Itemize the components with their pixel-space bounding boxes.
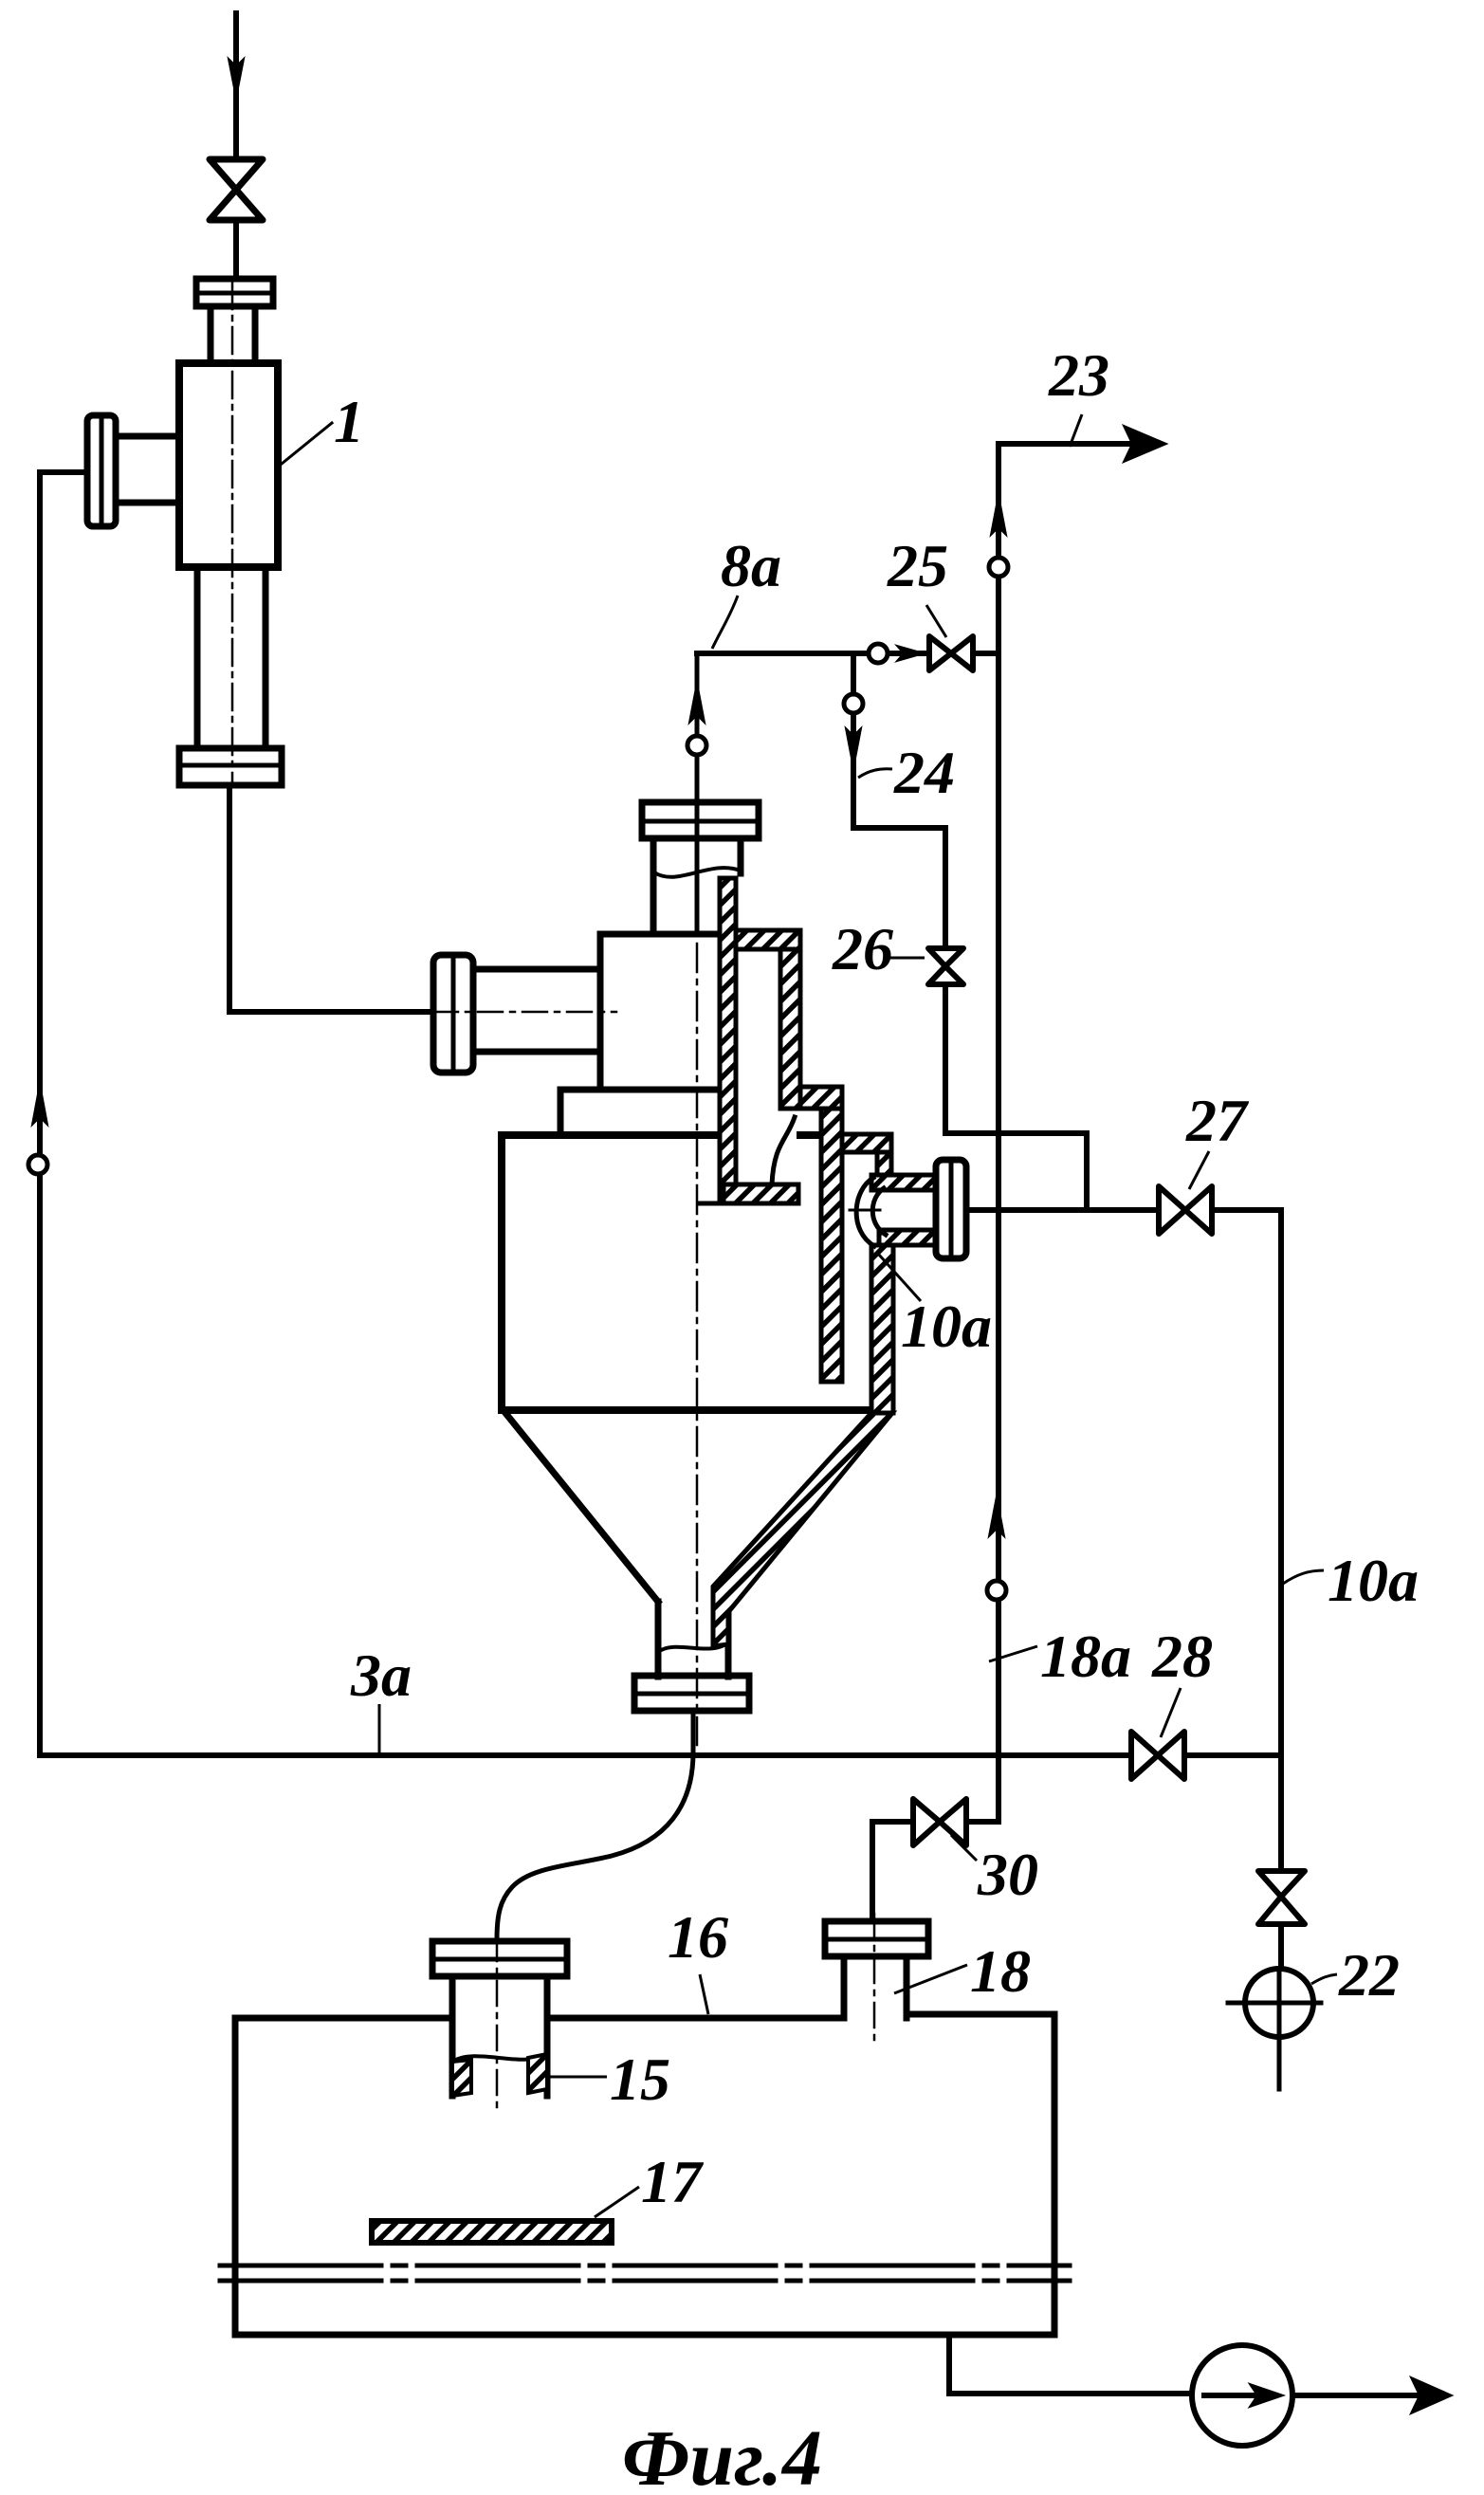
sampling line 8a inside nozzle bbox=[695, 653, 700, 934]
leader for label 8a bbox=[712, 596, 738, 649]
cup cone and neck band (hatched) bbox=[713, 1413, 892, 1646]
valve 25 bbox=[929, 636, 973, 670]
mixer top nozzle flange bbox=[642, 802, 759, 838]
inner tube bottom edge line bbox=[699, 1202, 724, 1206]
wire: line 23 horizontal with corner bbox=[998, 444, 1159, 653]
break curve in cup wall bbox=[772, 1117, 795, 1184]
pump outlet arrow head bbox=[1411, 2377, 1452, 2413]
svg-text:22: 22 bbox=[1338, 1941, 1400, 2009]
instrument circle on branch 24 bbox=[844, 694, 863, 713]
instrument circle on line 23 riser bbox=[989, 558, 1008, 577]
nozzle 15 centerline bbox=[496, 1936, 499, 2111]
svg-text:27: 27 bbox=[1185, 1087, 1250, 1154]
instrument circle on riser 18a bbox=[987, 1581, 1006, 1600]
inner tube left wall (hatched) bbox=[720, 878, 736, 1203]
leader for label 16 bbox=[700, 1974, 708, 2014]
svg-text:23: 23 bbox=[1048, 341, 1109, 409]
leader for label 18 bbox=[894, 1965, 967, 1993]
tank nozzle 18 flange bbox=[825, 1921, 928, 1956]
leader for label 25 bbox=[926, 605, 946, 637]
valve 26 bbox=[928, 948, 963, 984]
mixer inlet pipe centerline bbox=[433, 1011, 616, 1014]
tank nozzle 15 flange bbox=[432, 1941, 567, 1976]
pump outlet wire bbox=[1292, 2393, 1422, 2398]
inner cup right wall (hatched) bbox=[780, 949, 800, 1109]
outlet nozzle bottom wall (hatched) bbox=[879, 1230, 937, 1245]
valve 30 bbox=[913, 1799, 966, 1845]
wire: valve 30 to tank nozzle 18 bbox=[872, 1822, 913, 1921]
valve 27 bbox=[1159, 1186, 1212, 1234]
inner cup top rim (hatched) bbox=[736, 930, 800, 949]
svg-text:3a: 3a bbox=[350, 1642, 412, 1709]
instrument circle on 8a wire bbox=[869, 644, 888, 663]
svg-text:17: 17 bbox=[641, 2148, 705, 2215]
svg-text:24: 24 bbox=[893, 739, 955, 806]
flow arrow down on branch 24 bbox=[846, 728, 861, 768]
svg-text:18: 18 bbox=[970, 1937, 1031, 2005]
leader for label 10a at nozzle bbox=[878, 1254, 921, 1301]
flow arrow up on line 23 riser bbox=[991, 495, 1006, 535]
leader for label 17 bbox=[595, 2187, 639, 2217]
nozzle 18 centerline bbox=[873, 1914, 876, 2041]
leader for label 30 bbox=[951, 1835, 977, 1861]
mixer vertical centerline bbox=[696, 944, 699, 1745]
nozzle 15 break wave bbox=[452, 2054, 547, 2062]
mixer top box (left wall and top edge) bbox=[600, 934, 720, 1090]
valve (feed inlet, unnumbered) bbox=[210, 159, 263, 220]
leader for label 3a bbox=[378, 1704, 381, 1752]
plate 17 (hatched) bbox=[372, 2221, 612, 2243]
svg-text:10a: 10a bbox=[1328, 1547, 1419, 1614]
flow arrow up on line 8a bbox=[689, 683, 705, 723]
leader for label 15 bbox=[550, 2076, 607, 2079]
mixer top nozzle walls bbox=[653, 838, 741, 934]
svg-text:8a: 8a bbox=[721, 532, 781, 599]
wire: line 3a horizontal bbox=[40, 1752, 1281, 1758]
bottom flange of vessel 1 tube bbox=[179, 748, 282, 785]
svg-text:25: 25 bbox=[887, 532, 948, 599]
rotameter 22 circle bbox=[1245, 1969, 1313, 2037]
outlet elbow top strip (hatched) bbox=[842, 1134, 891, 1152]
outlet elbow bend arcs bbox=[856, 1178, 886, 1246]
leader for label 27 bbox=[1189, 1151, 1209, 1189]
svg-text:30: 30 bbox=[977, 1841, 1038, 1908]
leader line to label 1 bbox=[282, 423, 332, 464]
wire: line 10a from outlet nozzle to right riser bbox=[966, 1210, 1281, 1871]
tank nozzle 18 walls bbox=[844, 1956, 907, 2018]
flow arrow right on 8a wire bbox=[897, 646, 924, 661]
wire: feed inlet line into valve bbox=[233, 13, 239, 159]
outlet nozzle flange pair bbox=[936, 1160, 966, 1258]
wire: valve to rotameter 22 bbox=[1278, 1924, 1284, 1970]
break wave line in bottom neck bbox=[658, 1642, 728, 1652]
wire: vessel 1 outlet to mixer inlet flange bbox=[229, 785, 433, 1012]
flow arrow up on 3a riser bbox=[32, 1084, 47, 1125]
wire 3a riser: flange to bottom left corner bbox=[40, 472, 87, 1755]
left nozzle pipe of vessel 1 bbox=[119, 436, 179, 503]
outlet pipe from tank bottom to pump bbox=[949, 2335, 1192, 2394]
mixer main body bbox=[502, 1135, 870, 1410]
instrument circle on line 8a bbox=[687, 736, 706, 755]
svg-text:Фиг.4: Фиг.4 bbox=[622, 2414, 822, 2495]
nozzle 15 wall corners (hatched) bbox=[452, 2060, 471, 2096]
outer cup wall (hatched) bbox=[821, 1109, 842, 1382]
valve 28 bbox=[1131, 1732, 1184, 1779]
wire 8a horizontal to valve 25 bbox=[697, 651, 998, 656]
svg-text:10a: 10a bbox=[901, 1293, 992, 1360]
wire: branch 24 from line 8a down to valve 26 bbox=[853, 653, 945, 948]
leader for label 18a bbox=[989, 1646, 1037, 1661]
top neck of vessel 1 bbox=[211, 306, 255, 363]
arrow head of line 23 bbox=[1124, 426, 1166, 462]
pump circle bbox=[1192, 2345, 1292, 2446]
tank 16 shell bbox=[235, 2014, 1054, 2335]
wire: valve to flange of vessel 1 bbox=[233, 220, 239, 279]
mixer cone left bbox=[505, 1413, 658, 1602]
wire: valve 26 down to line 10a bbox=[945, 984, 1087, 1206]
valve above rotameter 22 bbox=[1258, 1871, 1305, 1924]
flow arrow down on feed line bbox=[229, 59, 244, 98]
outlet nozzle top wall (hatched) bbox=[871, 1175, 937, 1190]
mixer middle plate bbox=[560, 1090, 720, 1135]
leader for label 23 bbox=[1070, 414, 1082, 447]
svg-text:18a: 18a bbox=[1040, 1623, 1131, 1690]
leader for label 28 bbox=[1161, 1688, 1181, 1737]
mixer inlet flange pair bbox=[433, 955, 473, 1073]
leader for label 10a at riser bbox=[1283, 1570, 1324, 1584]
bottom tube of vessel 1 bbox=[197, 567, 266, 748]
mixer bottom neck walls bbox=[658, 1602, 728, 1677]
rotameter 22 cross lines bbox=[1228, 1970, 1321, 2089]
mixer inlet pipe walls bbox=[473, 969, 599, 1052]
svg-text:1: 1 bbox=[334, 388, 364, 455]
tank nozzle 15 walls bbox=[452, 1976, 547, 2096]
leader for label 26 bbox=[889, 957, 925, 960]
mixer bottom flange bbox=[634, 1676, 749, 1711]
outlet nozzle centerline tick bbox=[850, 1209, 880, 1212]
leader for label 24 bbox=[858, 769, 892, 778]
outer shell wall below nozzle (hatched) bbox=[871, 1245, 893, 1413]
hose from mixer bottom to tank nozzle 15 bbox=[497, 1715, 693, 1939]
vessel 1 (feed apparatus) body bbox=[179, 363, 278, 567]
shaft through tank (dash-dot double line) bbox=[220, 2266, 1070, 2281]
outlet elbow outer corner (hatched) bbox=[877, 1152, 891, 1175]
svg-text:26: 26 bbox=[832, 915, 893, 982]
flow arrow up on riser 18a bbox=[989, 1496, 1004, 1536]
inner tube bottom rim (hatched) bbox=[724, 1184, 798, 1203]
centerline of vessel 1 bbox=[231, 283, 234, 785]
svg-text:28: 28 bbox=[1151, 1623, 1213, 1690]
svg-text:16: 16 bbox=[668, 1903, 728, 1971]
instrument circle on 3a riser bbox=[28, 1155, 47, 1174]
pump internal arrow bbox=[1204, 2393, 1263, 2398]
wire: riser 18a (valve 25 down to valve 30) bbox=[968, 653, 998, 1822]
leader for label 22 bbox=[1311, 1974, 1337, 1984]
flange pair on left nozzle of vessel 1 bbox=[87, 415, 116, 526]
break wave line in top nozzle bbox=[654, 868, 741, 877]
flange on top neck of vessel 1 bbox=[196, 279, 273, 306]
inner cup step (hatched) bbox=[800, 1087, 842, 1109]
svg-text:15: 15 bbox=[610, 2046, 670, 2113]
